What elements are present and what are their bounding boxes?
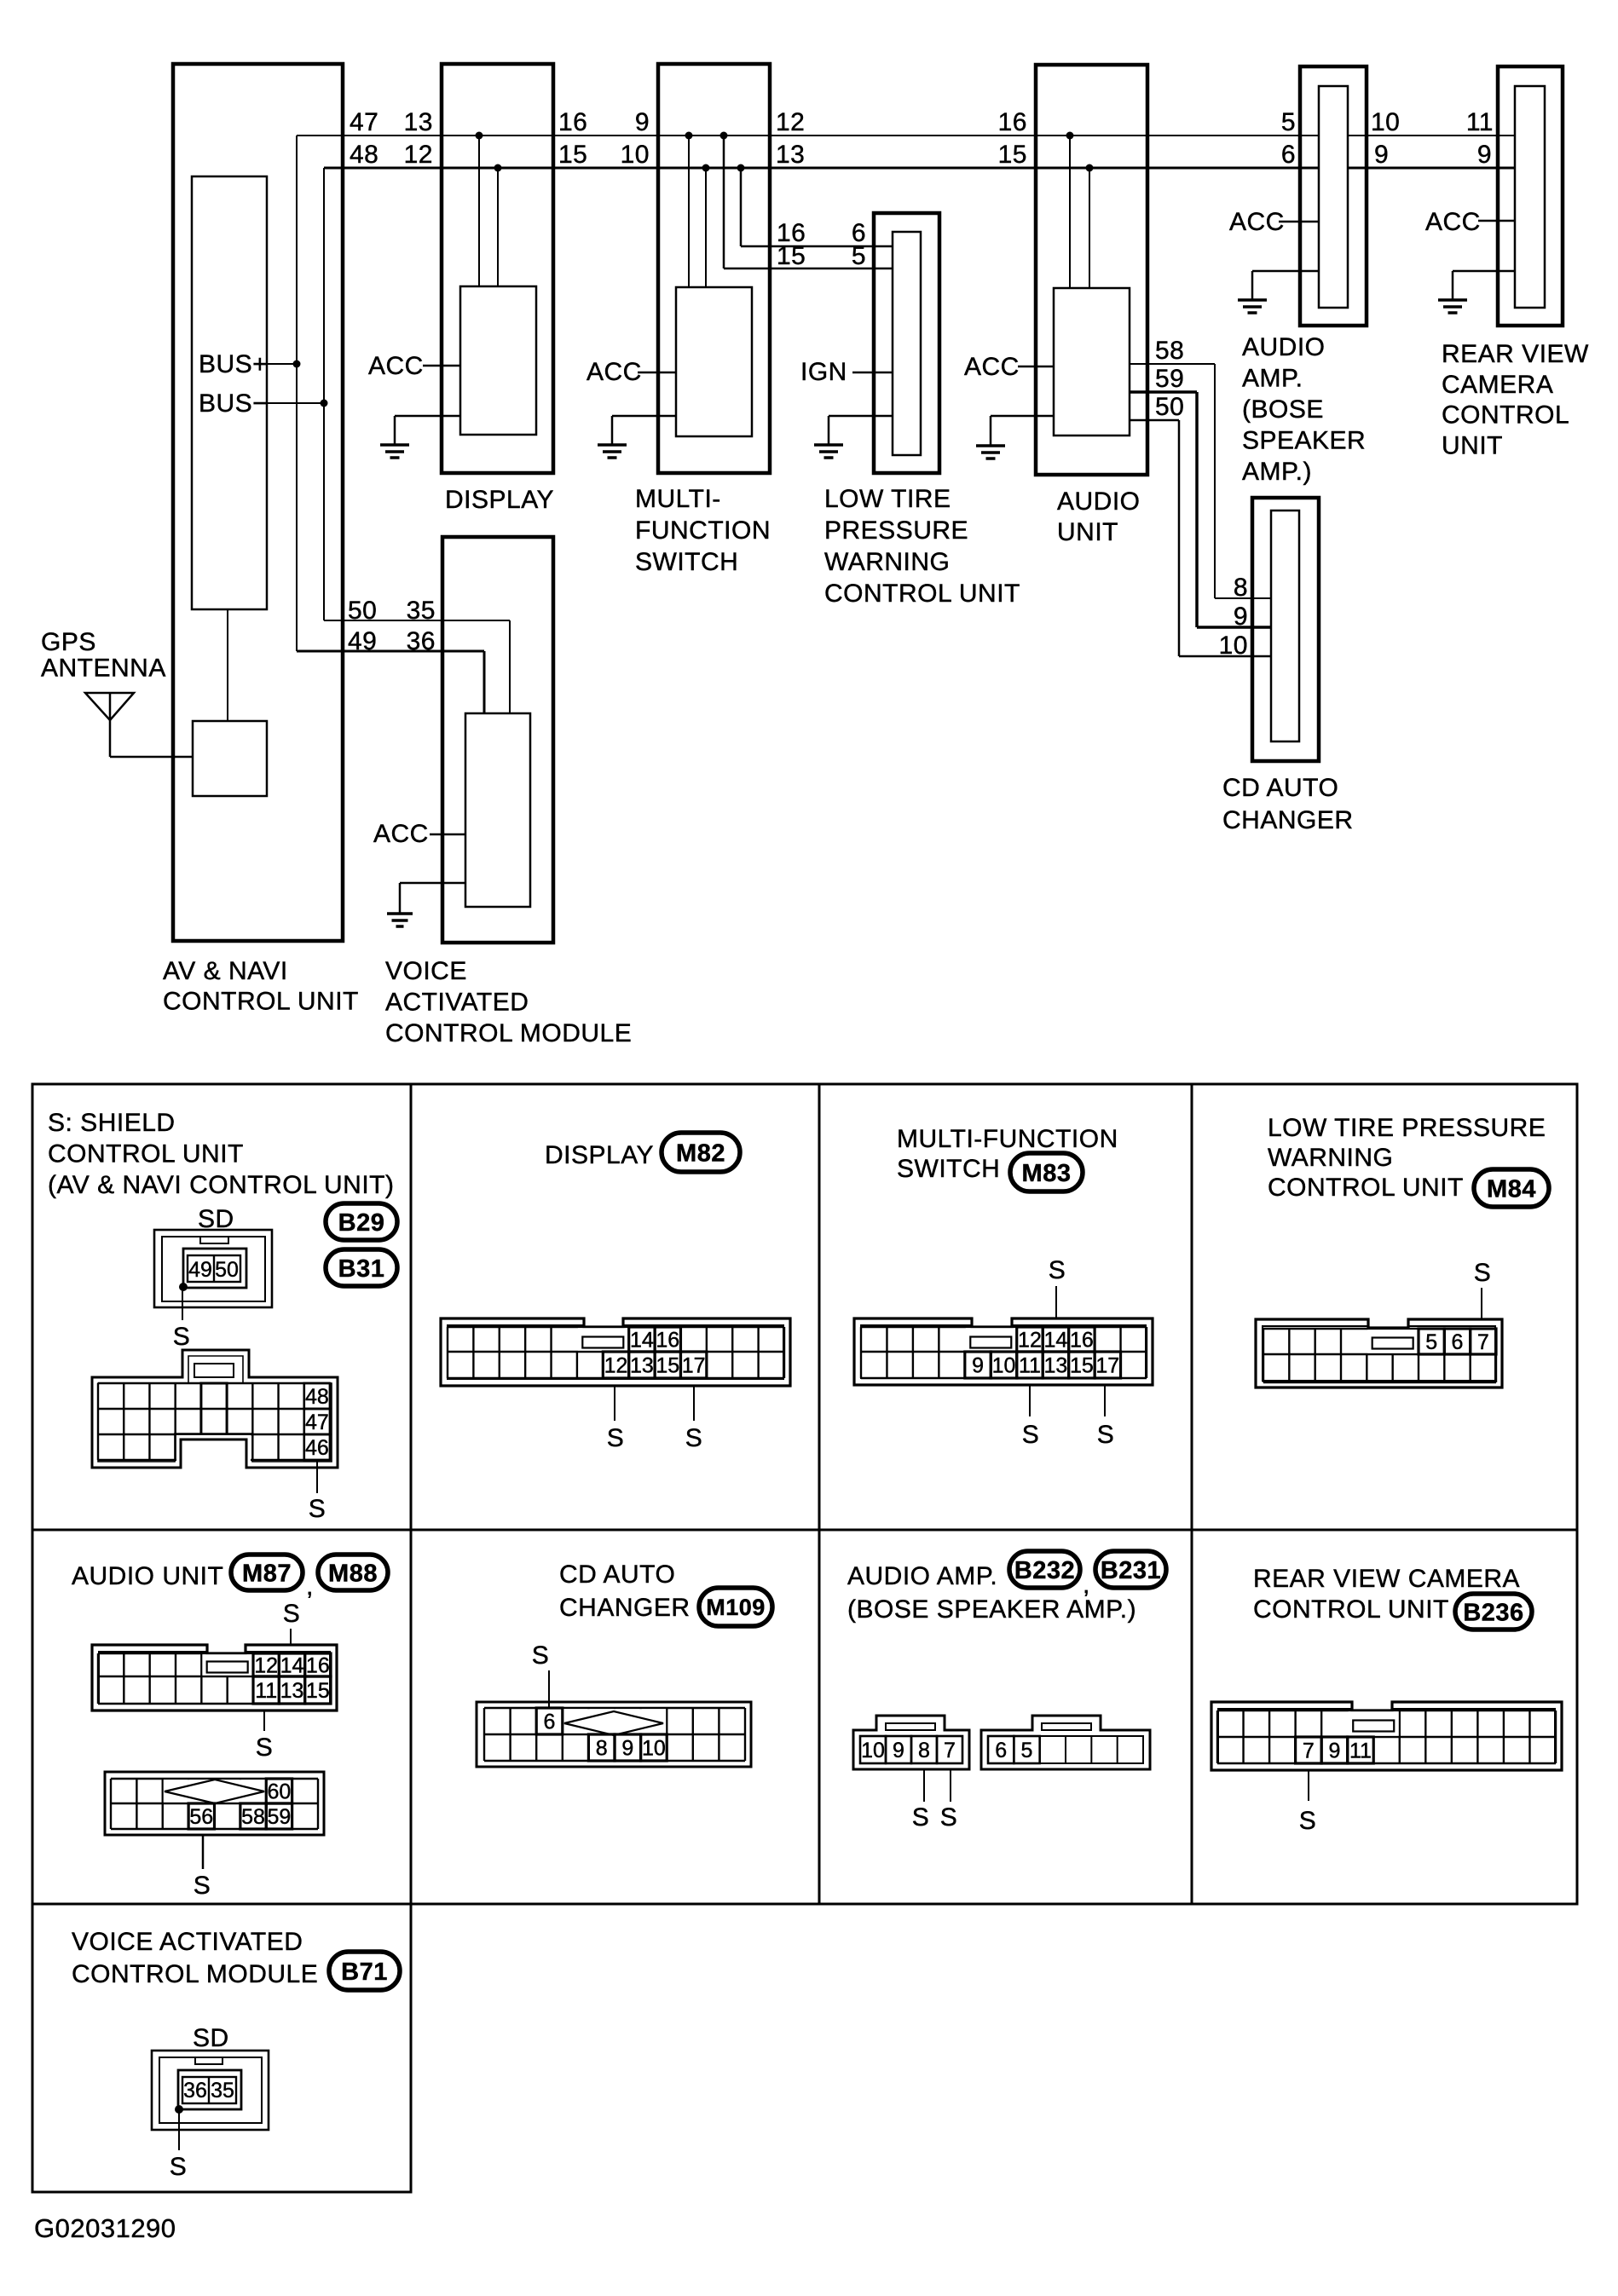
svg-text:,: , (306, 1572, 314, 1601)
svg-text:LOW TIRE PRESSURE: LOW TIRE PRESSURE (1268, 1114, 1546, 1142)
svg-text:15: 15 (306, 1679, 330, 1703)
svg-text:9: 9 (893, 1739, 904, 1762)
svg-text:48: 48 (305, 1385, 329, 1409)
svg-text:S: S (194, 1872, 211, 1900)
svg-text:7: 7 (1303, 1739, 1315, 1763)
svg-text:DISPLAY: DISPLAY (445, 486, 554, 514)
svg-text:DISPLAY: DISPLAY (545, 1141, 654, 1169)
svg-text:11: 11 (1466, 108, 1494, 136)
svg-text:B231: B231 (1101, 1557, 1161, 1584)
svg-text:LOW TIRE: LOW TIRE (824, 485, 951, 513)
svg-text:9: 9 (635, 108, 650, 136)
svg-text:17: 17 (1095, 1354, 1119, 1378)
svg-text:S: S (1022, 1421, 1040, 1449)
svg-text:5: 5 (1021, 1739, 1033, 1762)
svg-text:ACC: ACC (1425, 208, 1481, 236)
svg-text:AUDIO: AUDIO (1242, 333, 1326, 361)
svg-text:5: 5 (852, 242, 866, 270)
svg-text:S: S (1474, 1259, 1492, 1287)
svg-text:12: 12 (604, 1354, 628, 1378)
svg-text:58: 58 (241, 1805, 265, 1829)
svg-text:47: 47 (350, 108, 378, 136)
svg-text:S: S (170, 2153, 188, 2181)
svg-text:12: 12 (1018, 1329, 1042, 1353)
svg-text:B232: B232 (1014, 1557, 1075, 1584)
svg-text:B71: B71 (341, 1959, 388, 1986)
svg-text:S: SHIELD: S: SHIELD (48, 1109, 176, 1137)
svg-text:50: 50 (215, 1258, 239, 1282)
svg-text:11: 11 (1019, 1354, 1041, 1378)
svg-text:10: 10 (861, 1739, 885, 1762)
svg-text:SWITCH: SWITCH (635, 548, 738, 576)
svg-text:59: 59 (1155, 365, 1184, 393)
svg-text:9: 9 (972, 1354, 984, 1378)
svg-text:UNIT: UNIT (1442, 431, 1503, 459)
svg-text:B29: B29 (338, 1209, 385, 1237)
svg-text:11: 11 (255, 1679, 277, 1703)
svg-text:SWITCH: SWITCH (897, 1155, 1000, 1183)
svg-text:AV & NAVI: AV & NAVI (163, 957, 288, 985)
svg-text:6: 6 (544, 1710, 556, 1734)
svg-text:S: S (1097, 1421, 1115, 1449)
svg-text:(BOSE: (BOSE (1242, 395, 1324, 424)
svg-text:S: S (607, 1424, 625, 1452)
svg-text:S: S (1049, 1256, 1066, 1284)
svg-text:VOICE: VOICE (385, 957, 467, 985)
svg-text:9: 9 (1234, 603, 1248, 631)
svg-text:11: 11 (1349, 1739, 1372, 1763)
svg-text:CONTROL: CONTROL (1442, 401, 1569, 430)
svg-text:9: 9 (1477, 141, 1492, 169)
svg-text:12: 12 (404, 141, 433, 169)
svg-text:IGN: IGN (800, 358, 847, 386)
svg-text:10: 10 (992, 1354, 1016, 1378)
svg-text:15: 15 (998, 141, 1027, 169)
svg-text:47: 47 (305, 1410, 329, 1434)
svg-text:8: 8 (1234, 574, 1248, 602)
svg-text:36: 36 (407, 627, 436, 655)
svg-text:BUS+: BUS+ (199, 350, 268, 378)
svg-text:ACC: ACC (373, 820, 429, 848)
svg-text:50: 50 (1155, 393, 1184, 421)
svg-text:8: 8 (596, 1737, 608, 1761)
svg-text:15: 15 (1070, 1354, 1094, 1378)
svg-text:59: 59 (268, 1805, 292, 1829)
svg-text:S: S (532, 1641, 550, 1670)
svg-text:CONTROL MODULE: CONTROL MODULE (72, 1960, 318, 1988)
svg-text:S: S (309, 1495, 326, 1523)
svg-text:6: 6 (1281, 141, 1296, 169)
svg-text:15: 15 (777, 242, 806, 270)
svg-text:9: 9 (1374, 141, 1389, 169)
svg-text:48: 48 (350, 141, 378, 169)
svg-text:AMP.): AMP.) (1242, 458, 1312, 486)
svg-text:BUS−: BUS− (199, 389, 268, 418)
svg-text:14: 14 (1044, 1329, 1068, 1353)
svg-text:9: 9 (621, 1737, 633, 1761)
svg-text:AMP.: AMP. (1242, 365, 1303, 393)
svg-text:10: 10 (621, 141, 650, 169)
svg-text:10: 10 (1219, 632, 1248, 660)
svg-text:35: 35 (407, 597, 436, 625)
svg-text:6: 6 (995, 1739, 1007, 1762)
svg-text:46: 46 (305, 1436, 329, 1460)
svg-text:ACC: ACC (1229, 208, 1285, 236)
svg-text:12: 12 (254, 1654, 278, 1678)
svg-text:M87: M87 (242, 1560, 292, 1587)
svg-text:13: 13 (280, 1679, 304, 1703)
svg-text:50: 50 (348, 597, 377, 625)
svg-text:CHANGER: CHANGER (559, 1594, 691, 1622)
svg-text:PRESSURE: PRESSURE (824, 516, 968, 545)
svg-text:G02031290: G02031290 (34, 2213, 176, 2243)
svg-text:UNIT: UNIT (1057, 518, 1118, 546)
svg-text:58: 58 (1155, 337, 1184, 365)
svg-text:REAR VIEW CAMERA: REAR VIEW CAMERA (1253, 1565, 1520, 1593)
svg-text:13: 13 (776, 141, 805, 169)
svg-text:GPS: GPS (41, 628, 96, 656)
svg-text:14: 14 (280, 1654, 304, 1678)
svg-text:16: 16 (998, 108, 1027, 136)
svg-text:M83: M83 (1022, 1160, 1072, 1187)
svg-text:ANTENNA: ANTENNA (41, 655, 166, 683)
svg-text:ACC: ACC (368, 352, 424, 380)
svg-text:WARNING: WARNING (824, 548, 950, 576)
svg-text:5: 5 (1281, 108, 1296, 136)
svg-text:10: 10 (1371, 108, 1400, 136)
svg-text:10: 10 (642, 1737, 666, 1761)
svg-text:15: 15 (656, 1354, 679, 1378)
svg-text:(BOSE SPEAKER AMP.): (BOSE SPEAKER AMP.) (847, 1595, 1136, 1624)
svg-text:S: S (283, 1600, 301, 1628)
svg-text:13: 13 (1044, 1354, 1068, 1378)
svg-text:CONTROL UNIT: CONTROL UNIT (824, 580, 1020, 608)
svg-text:16: 16 (1070, 1329, 1094, 1353)
svg-text:16: 16 (306, 1654, 330, 1678)
svg-text:ACTIVATED: ACTIVATED (385, 989, 529, 1017)
svg-text:CONTROL UNIT: CONTROL UNIT (163, 988, 359, 1016)
svg-text:CAMERA: CAMERA (1442, 371, 1553, 399)
svg-text:6: 6 (1452, 1330, 1464, 1354)
svg-text:15: 15 (558, 141, 587, 169)
svg-text:CHANGER: CHANGER (1222, 806, 1354, 834)
svg-text:60: 60 (268, 1780, 292, 1804)
svg-text:WARNING: WARNING (1268, 1144, 1393, 1172)
svg-text:CD AUTO: CD AUTO (559, 1560, 675, 1589)
svg-text:B236: B236 (1463, 1599, 1523, 1626)
svg-text:13: 13 (404, 108, 433, 136)
svg-text:16: 16 (558, 108, 587, 136)
svg-text:49: 49 (188, 1258, 212, 1282)
svg-text:7: 7 (1477, 1330, 1489, 1354)
svg-text:S: S (685, 1424, 703, 1452)
svg-text:S: S (256, 1734, 274, 1762)
svg-text:MULTI-: MULTI- (635, 485, 721, 513)
svg-text:(AV & NAVI CONTROL UNIT): (AV & NAVI CONTROL UNIT) (48, 1171, 394, 1199)
svg-text:AUDIO UNIT: AUDIO UNIT (72, 1562, 223, 1590)
svg-text:36: 36 (183, 2079, 207, 2103)
svg-text:CONTROL UNIT: CONTROL UNIT (1253, 1595, 1449, 1624)
svg-text:CONTROL UNIT: CONTROL UNIT (1268, 1174, 1464, 1202)
svg-text:9: 9 (1328, 1739, 1340, 1763)
svg-text:49: 49 (348, 627, 377, 655)
svg-text:S: S (173, 1323, 191, 1351)
svg-text:M88: M88 (328, 1560, 378, 1587)
svg-text:VOICE ACTIVATED: VOICE ACTIVATED (72, 1928, 303, 1956)
svg-text:REAR VIEW: REAR VIEW (1442, 340, 1589, 368)
svg-text:FUNCTION: FUNCTION (635, 516, 771, 545)
svg-text:M84: M84 (1487, 1175, 1536, 1203)
svg-text:MULTI-FUNCTION: MULTI-FUNCTION (897, 1125, 1118, 1153)
svg-text:13: 13 (630, 1354, 654, 1378)
svg-text:35: 35 (211, 2079, 234, 2103)
svg-text:B31: B31 (338, 1255, 385, 1283)
svg-text:CONTROL MODULE: CONTROL MODULE (385, 1019, 632, 1047)
svg-text:M82: M82 (676, 1139, 725, 1167)
svg-text:8: 8 (918, 1739, 930, 1762)
svg-text:17: 17 (682, 1354, 706, 1378)
svg-text:12: 12 (776, 108, 805, 136)
svg-text:AUDIO AMP.: AUDIO AMP. (847, 1562, 997, 1590)
svg-text:ACC: ACC (587, 358, 642, 386)
svg-text:SD: SD (193, 2024, 229, 2052)
svg-text:S: S (940, 1803, 958, 1832)
svg-text:CONTROL UNIT: CONTROL UNIT (48, 1140, 244, 1168)
svg-text:S: S (912, 1803, 930, 1832)
svg-text:CD AUTO: CD AUTO (1222, 774, 1338, 802)
svg-text:ACC: ACC (964, 353, 1020, 381)
svg-text:14: 14 (630, 1329, 654, 1353)
svg-text:S: S (1299, 1807, 1317, 1835)
svg-text:16: 16 (656, 1329, 679, 1353)
svg-text:M109: M109 (706, 1595, 766, 1620)
svg-text:SPEAKER: SPEAKER (1242, 427, 1366, 455)
svg-text:AUDIO: AUDIO (1057, 487, 1141, 516)
svg-text:7: 7 (944, 1739, 956, 1762)
svg-text:56: 56 (189, 1805, 213, 1829)
svg-text:5: 5 (1425, 1330, 1437, 1354)
